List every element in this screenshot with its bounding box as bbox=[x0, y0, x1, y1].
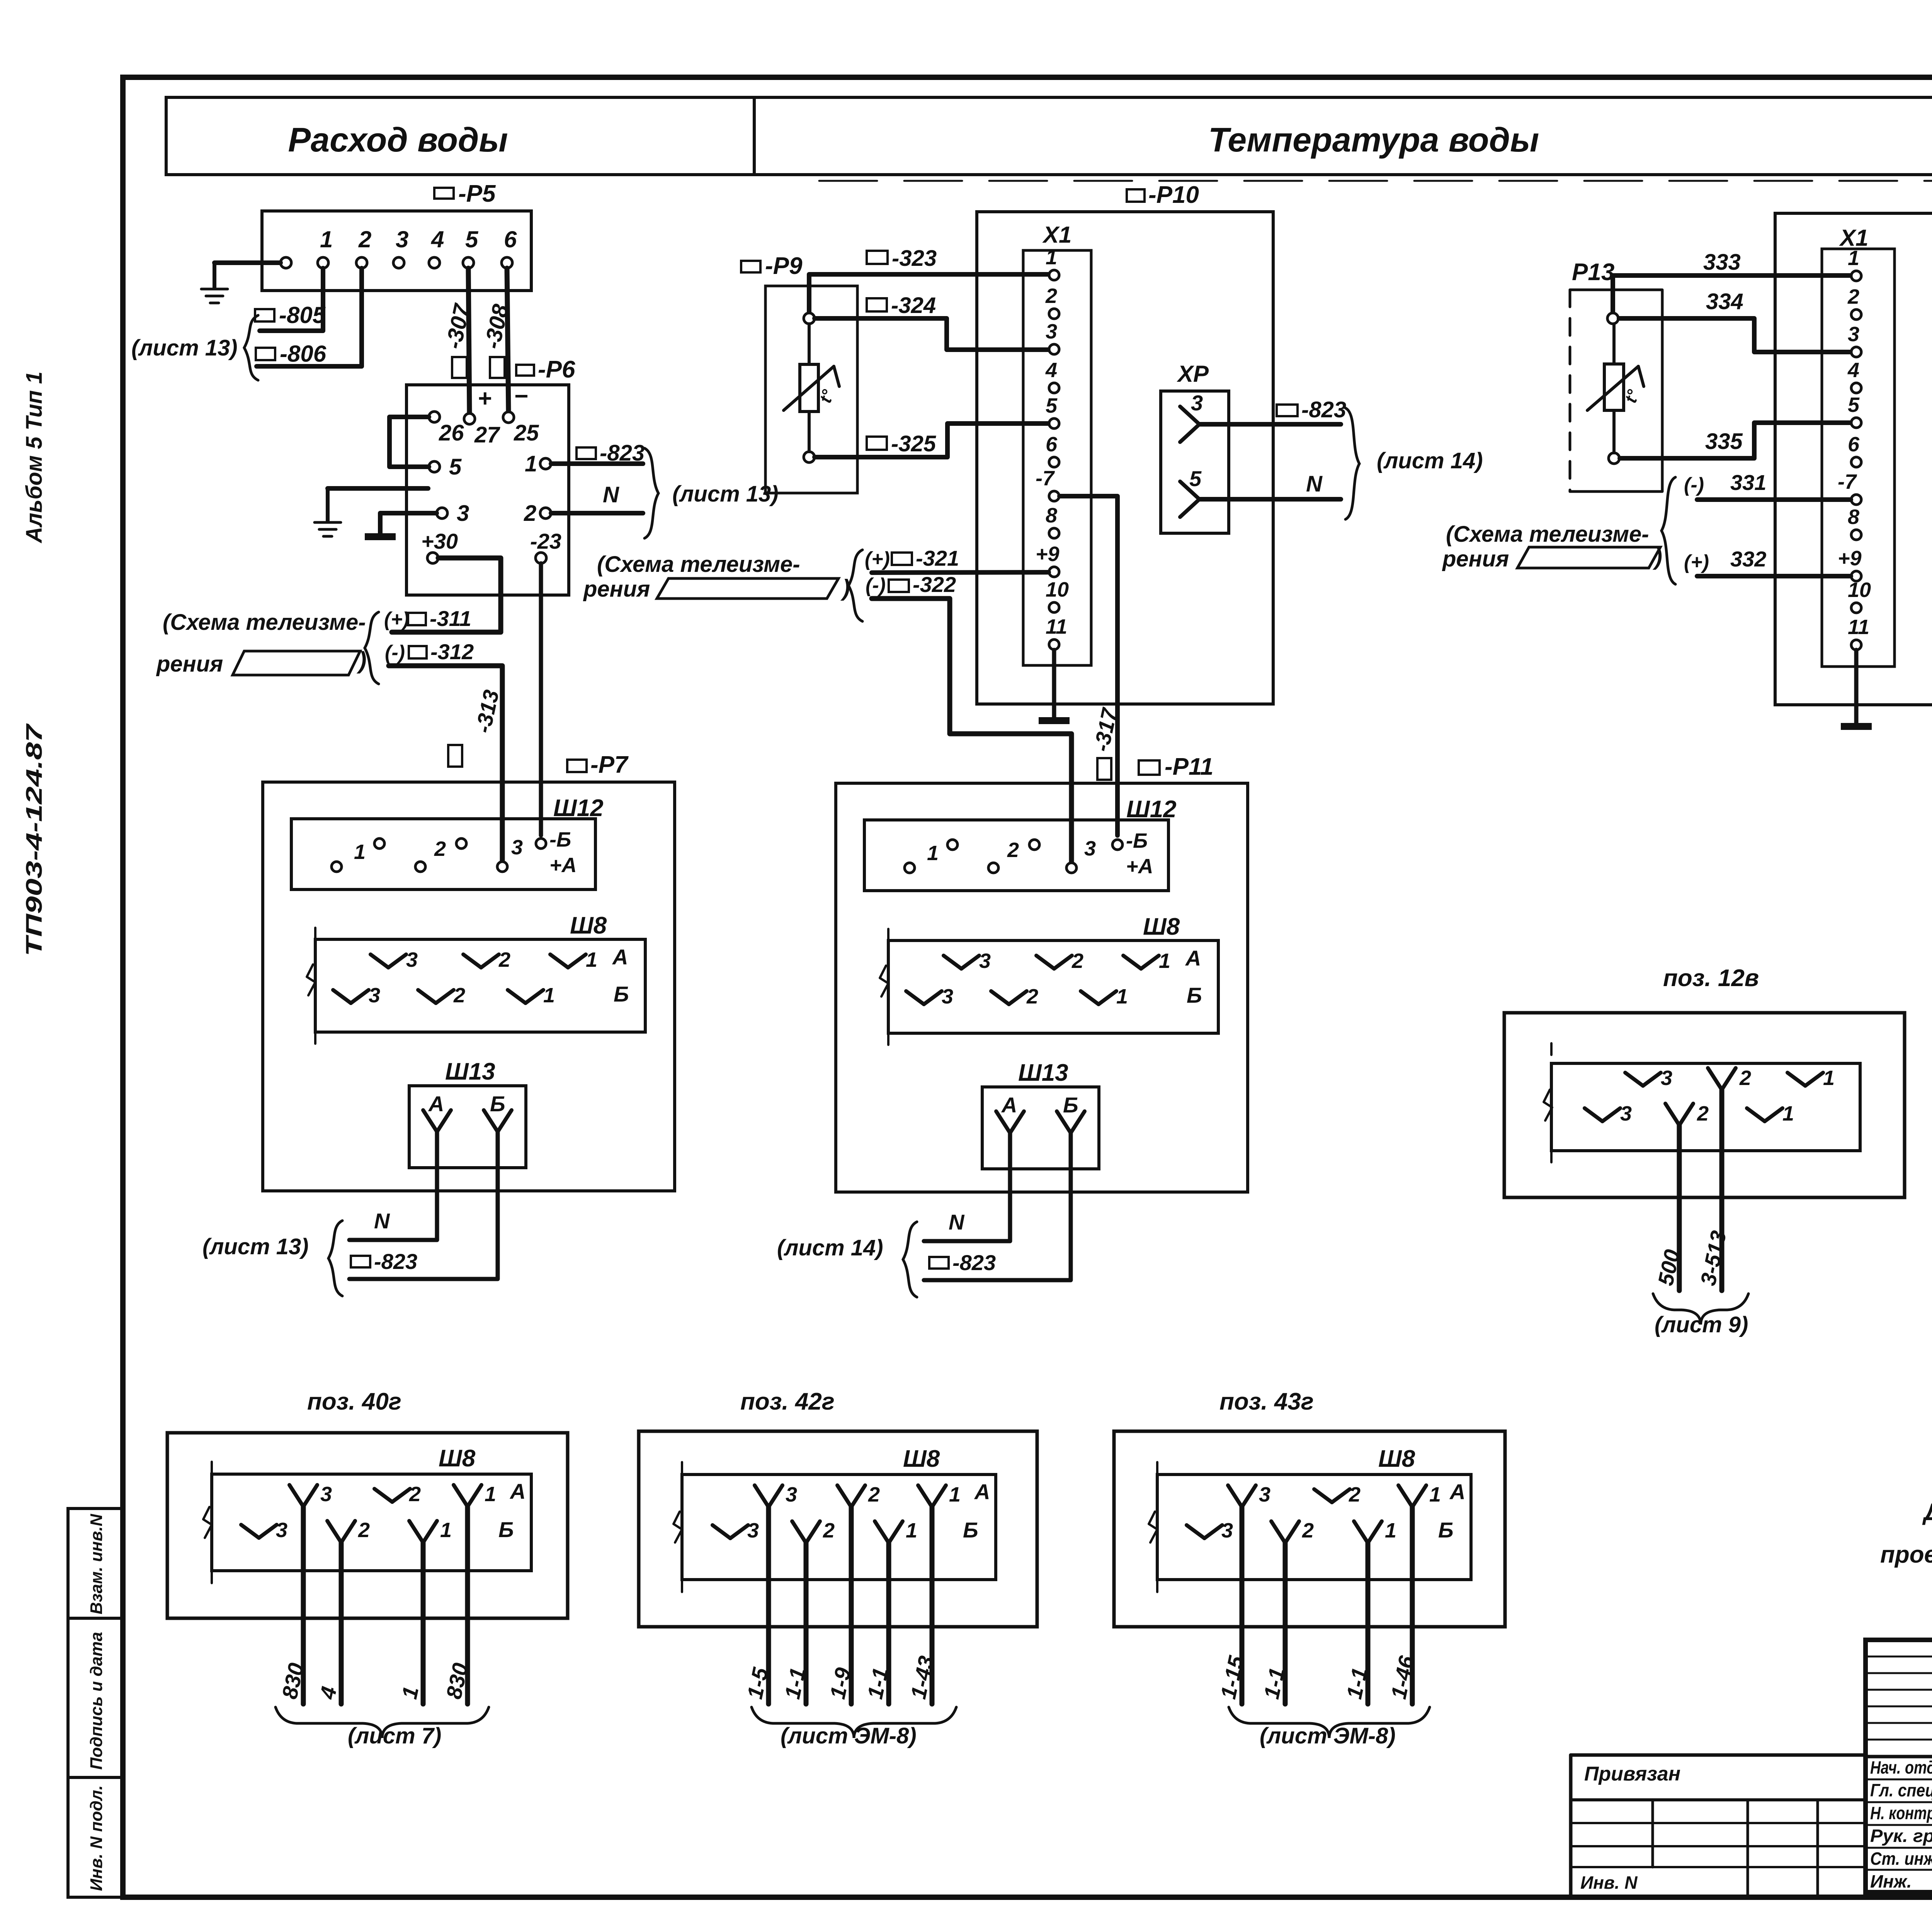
header divider bbox=[753, 97, 756, 175]
поз.43г row A check 2 bbox=[1314, 1489, 1332, 1502]
svg-text:2: 2 bbox=[358, 1519, 370, 1542]
svg-text:Альбом 5 Тип 1: Альбом 5 Тип 1 bbox=[22, 371, 47, 544]
X1 P14 pin 1 bbox=[1851, 271, 1861, 281]
X1 P10 pin 4 bbox=[1049, 383, 1059, 393]
indicator box поз.43г bbox=[1114, 1431, 1505, 1627]
wire 1-1 from поз.42г bbox=[804, 1543, 809, 1704]
Ш8 panel of поз.40г bbox=[212, 1474, 531, 1571]
svg-text:(Схема телеизме-: (Схема телеизме- bbox=[1446, 522, 1649, 547]
svg-text:3: 3 bbox=[320, 1483, 332, 1506]
brace for 805/806 bbox=[244, 315, 258, 380]
Ш8 P11 row A checks bbox=[944, 956, 961, 969]
svg-text:1: 1 bbox=[586, 948, 597, 971]
поз.12в row A check 3 bbox=[1625, 1073, 1643, 1086]
earth bar filled bbox=[365, 533, 396, 540]
label -P6 bbox=[516, 365, 534, 376]
terminal box P5 bbox=[262, 211, 531, 291]
X1 P14 pin 10 bbox=[1851, 603, 1861, 613]
Ш8 panel of поз.43г bbox=[1157, 1475, 1471, 1580]
P6 terminal 5 bbox=[429, 461, 440, 472]
wire 1-9 from поз.42г bbox=[849, 1507, 854, 1704]
svg-text:+А: +А bbox=[549, 854, 577, 877]
device box P7 bbox=[263, 782, 675, 1191]
svg-text:8: 8 bbox=[1046, 504, 1057, 527]
brace under поз.40г bbox=[276, 1707, 489, 1738]
Ш8 P7 left break line bbox=[314, 928, 316, 1044]
header box bbox=[166, 97, 1932, 175]
svg-text:Ш8: Ш8 bbox=[1143, 913, 1180, 940]
Ш8 P11 left break line bbox=[887, 929, 889, 1045]
Ш8 panel of поз.42г bbox=[682, 1475, 996, 1580]
X1 P10 pin 8 bbox=[1049, 528, 1059, 538]
Ш12 P11 pin circle 2 bbox=[947, 840, 957, 850]
svg-text:(Схема телеизме-: (Схема телеизме- bbox=[597, 552, 800, 577]
wire 1-43 from поз.42г bbox=[930, 1507, 935, 1704]
svg-text:1: 1 bbox=[1116, 985, 1128, 1008]
wire 334 bbox=[1619, 318, 1851, 352]
P6 terminal 25 bbox=[503, 412, 514, 423]
label -823 B bbox=[1277, 405, 1298, 416]
wire P6 pin3 to earth bbox=[380, 513, 437, 533]
wire 322 (-) to Ш12-3 (P11) bbox=[872, 599, 1071, 863]
title block upper-left grid bbox=[1866, 1656, 1932, 1658]
svg-text:1: 1 bbox=[485, 1483, 496, 1506]
поз.40г row A check 3 bbox=[289, 1485, 303, 1507]
svg-text:27: 27 bbox=[474, 422, 500, 447]
svg-text:1: 1 bbox=[354, 840, 366, 864]
wire 324 bbox=[815, 318, 1049, 350]
wire XP3 to -823 bbox=[1199, 422, 1341, 427]
svg-text:-806: -806 bbox=[280, 341, 327, 367]
wire P5 pin6 to P6 25 bbox=[507, 268, 509, 412]
X1 P10 pin 11 bbox=[1049, 639, 1059, 650]
label -823 of P7 bbox=[351, 1256, 370, 1267]
svg-text:поз. 42г: поз. 42г bbox=[740, 1388, 835, 1415]
left extension of title block bbox=[1571, 1753, 1866, 1757]
svg-text:Б: Б bbox=[963, 1518, 978, 1542]
margin box Взам.инв.N bbox=[68, 1509, 122, 1618]
svg-text:1: 1 bbox=[543, 984, 555, 1007]
X1 P10 pin 2 bbox=[1049, 309, 1059, 319]
wire 1-1 from поз.43г bbox=[1283, 1543, 1288, 1704]
P6 terminal 1 bbox=[540, 458, 551, 469]
X1 P10 pin 1 bbox=[1049, 270, 1059, 280]
label -P9 bbox=[741, 261, 760, 272]
svg-text:поз. 43г: поз. 43г bbox=[1219, 1388, 1314, 1415]
svg-text:2: 2 bbox=[868, 1483, 880, 1506]
svg-text:3: 3 bbox=[1661, 1066, 1672, 1090]
svg-text:ТП903-4-124.87: ТП903-4-124.87 bbox=[22, 723, 47, 956]
instrument box P14 bbox=[1775, 213, 1932, 705]
wire P5 pin2 to -806 bbox=[257, 268, 362, 366]
svg-text:-823: -823 bbox=[1301, 397, 1346, 422]
wire 1-15 from поз.43г bbox=[1240, 1507, 1245, 1704]
label -P5 bbox=[434, 188, 454, 199]
svg-text:-23: -23 bbox=[530, 529, 561, 553]
break line поз.40г bbox=[211, 1462, 213, 1583]
svg-text:Б: Б bbox=[498, 1517, 514, 1542]
svg-text:3: 3 bbox=[1259, 1483, 1270, 1506]
Ш12 P11 pin circle 3 bbox=[988, 863, 998, 873]
svg-text:поз. 12в: поз. 12в bbox=[1663, 965, 1759, 992]
поз.42г row Б check 3 bbox=[713, 1525, 730, 1538]
svg-text:Ш13: Ш13 bbox=[445, 1058, 495, 1085]
svg-text:А: А bbox=[509, 1479, 526, 1503]
svg-text:(+): (+) bbox=[865, 548, 890, 570]
wire Ш13-Б of P11 to -823 bbox=[924, 1133, 1071, 1280]
svg-text:Ш8: Ш8 bbox=[439, 1445, 476, 1472]
svg-text:3: 3 bbox=[369, 984, 380, 1007]
svg-text:N: N bbox=[1306, 471, 1323, 497]
svg-text:+: + bbox=[478, 385, 492, 412]
X1 P14 pin 7 bbox=[1851, 495, 1861, 505]
wire XP5 N bbox=[1199, 497, 1341, 502]
svg-text:4: 4 bbox=[1847, 359, 1859, 382]
svg-text:-325: -325 bbox=[891, 431, 936, 456]
svg-text:1: 1 bbox=[320, 226, 333, 252]
svg-text:3: 3 bbox=[457, 501, 469, 526]
svg-text:+9: +9 bbox=[1838, 547, 1862, 570]
Ш8 P11 row Б checks bbox=[906, 991, 924, 1004]
X1 P14 pin 11 bbox=[1851, 640, 1861, 650]
left extension grid bbox=[1571, 1822, 1866, 1824]
svg-text:-Р9: -Р9 bbox=[765, 253, 803, 279]
indicator box поз.12в bbox=[1504, 1013, 1905, 1197]
Ш12 P7 pin circle 1 bbox=[332, 862, 342, 872]
wire 332 (+) bbox=[1697, 574, 1851, 578]
wire 325 bbox=[815, 423, 1049, 457]
wire X1-11 to ground B bbox=[1052, 650, 1056, 717]
inner panel поз.12в bbox=[1551, 1063, 1860, 1151]
svg-text:3: 3 bbox=[406, 948, 418, 971]
поз.43г row Б check 1 bbox=[1354, 1521, 1368, 1543]
X1 P14 pin 4 bbox=[1851, 383, 1861, 393]
wire 1-1 from поз.42г bbox=[886, 1543, 891, 1704]
svg-text:(-): (-) bbox=[1684, 474, 1704, 496]
svg-text:-7: -7 bbox=[1036, 467, 1055, 490]
svg-text:5: 5 bbox=[449, 454, 462, 480]
svg-text:331: 331 bbox=[1730, 470, 1766, 495]
svg-text:-311: -311 bbox=[430, 606, 471, 631]
RTD resistor body P9 bbox=[800, 364, 818, 412]
svg-text:-324: -324 bbox=[891, 293, 936, 318]
svg-text:А: А bbox=[428, 1092, 444, 1116]
P6 terminal -23 bbox=[536, 553, 546, 563]
поз.42г row A check 3 bbox=[755, 1485, 769, 1507]
P6 terminal 3 bbox=[437, 508, 447, 519]
svg-text:+30: +30 bbox=[421, 529, 458, 553]
svg-text:333: 333 bbox=[1703, 250, 1741, 275]
title block outline bbox=[1866, 1640, 1932, 1892]
svg-text:N: N bbox=[603, 482, 619, 507]
svg-text:1: 1 bbox=[1823, 1066, 1835, 1090]
P6 terminal 26 bbox=[429, 412, 440, 422]
svg-text:А: А bbox=[612, 945, 628, 969]
svg-text:(лист 13): (лист 13) bbox=[131, 335, 238, 361]
svg-text:2: 2 bbox=[1349, 1483, 1361, 1506]
X1 P14 pin 8 bbox=[1851, 530, 1861, 540]
brace of P11 bbox=[903, 1222, 917, 1297]
indicator box поз.40г bbox=[167, 1433, 568, 1618]
Ш12 P11 pin circle 4 bbox=[1029, 840, 1039, 850]
wire P5 pin1 to -805 bbox=[260, 268, 323, 331]
svg-text:1: 1 bbox=[1848, 247, 1859, 270]
svg-text:2: 2 bbox=[409, 1483, 421, 1506]
svg-text:-823: -823 bbox=[600, 440, 645, 466]
svg-text:-312: -312 bbox=[430, 639, 474, 664]
sensor box P9 bbox=[765, 286, 857, 493]
indicator box поз.42г bbox=[639, 1431, 1037, 1627]
svg-text:6: 6 bbox=[504, 226, 517, 252]
device box P11 bbox=[836, 783, 1248, 1192]
wire 333 bbox=[1613, 276, 1851, 318]
brace of P7 bbox=[328, 1221, 342, 1296]
svg-text:3: 3 bbox=[1221, 1519, 1233, 1542]
поз.12в row Б check 1 bbox=[1747, 1108, 1765, 1121]
RTD resistor body P13 bbox=[1604, 364, 1624, 410]
svg-text:(лист 7): (лист 7) bbox=[348, 1723, 441, 1748]
header underline dashes bbox=[819, 180, 1932, 182]
svg-text:-805: -805 bbox=[279, 302, 326, 328]
svg-text:Инв. N подл.: Инв. N подл. bbox=[87, 1785, 106, 1891]
поз.40г row Б check 1 bbox=[409, 1521, 423, 1543]
svg-text:Подпись и дата: Подпись и дата bbox=[87, 1632, 106, 1770]
device box P6 bbox=[406, 385, 569, 595]
brace schema B bbox=[849, 550, 862, 621]
svg-text:8: 8 bbox=[1848, 505, 1859, 529]
svg-text:(лист 13): (лист 13) bbox=[672, 481, 779, 507]
svg-text:Инв. N: Инв. N bbox=[1580, 1872, 1638, 1893]
X1 P14 pin 3 bbox=[1851, 347, 1861, 357]
wire P5 pin5 to P6 27 bbox=[468, 268, 469, 413]
svg-text:2: 2 bbox=[1007, 838, 1019, 862]
svg-text:3: 3 bbox=[1084, 837, 1096, 860]
svg-text:1: 1 bbox=[440, 1519, 452, 1542]
svg-text:1: 1 bbox=[1429, 1483, 1441, 1506]
svg-text:10: 10 bbox=[1046, 578, 1069, 601]
svg-text:1: 1 bbox=[1385, 1519, 1396, 1542]
svg-text:(лист 13): (лист 13) bbox=[202, 1234, 309, 1259]
X1 P10 pin 3 bbox=[1049, 344, 1059, 354]
svg-text:3: 3 bbox=[276, 1519, 287, 1542]
svg-text:Б: Б bbox=[1438, 1518, 1454, 1542]
svg-text:(лист 14): (лист 14) bbox=[777, 1235, 883, 1260]
поз.42г row A check 2 bbox=[837, 1485, 851, 1507]
svg-text:(лист ЭМ-8): (лист ЭМ-8) bbox=[1260, 1723, 1396, 1748]
svg-text:Температура воды: Температура воды bbox=[1208, 121, 1539, 159]
svg-text:3: 3 bbox=[942, 985, 953, 1008]
svg-text:3: 3 bbox=[786, 1483, 797, 1506]
svg-text:2: 2 bbox=[524, 501, 536, 526]
wire Ш13-А of P11 to N bbox=[924, 1133, 1010, 1241]
svg-text:5: 5 bbox=[1046, 394, 1058, 417]
svg-text:Ст. инж.: Ст. инж. bbox=[1870, 1849, 1932, 1869]
svg-text:Б: Б bbox=[1187, 983, 1202, 1007]
parallelogram A bbox=[233, 651, 360, 675]
svg-text:А: А bbox=[1185, 946, 1201, 970]
ground bar B bbox=[1039, 717, 1070, 724]
поз.42г row A check 1 bbox=[918, 1485, 932, 1507]
svg-text:-7: -7 bbox=[1838, 470, 1857, 493]
X1 P10 pin 7 bbox=[1049, 491, 1059, 501]
svg-text:5: 5 bbox=[1189, 466, 1202, 491]
svg-text:1: 1 bbox=[927, 842, 939, 865]
svg-text:3: 3 bbox=[747, 1519, 759, 1542]
Ш8 P7 row Б checks bbox=[333, 990, 351, 1003]
svg-text:Н. контр.: Н. контр. bbox=[1870, 1803, 1932, 1823]
svg-text:26: 26 bbox=[439, 420, 464, 446]
parallelogram B bbox=[657, 578, 838, 599]
svg-text:А: А bbox=[1001, 1093, 1017, 1117]
wire RTD stem P9 bbox=[808, 324, 811, 364]
svg-text:проекта: проекта bbox=[1880, 1541, 1932, 1568]
svg-text:(-): (-) bbox=[385, 641, 405, 664]
wire 323 bbox=[809, 274, 1049, 318]
label -806 bbox=[256, 348, 275, 360]
svg-text:1: 1 bbox=[1046, 246, 1057, 269]
svg-text:N: N bbox=[374, 1209, 390, 1233]
поз.43г row Б check 3 bbox=[1187, 1525, 1204, 1538]
Ш12 P7 pin circle 5 bbox=[497, 862, 507, 872]
ground bar C bbox=[1841, 723, 1872, 730]
P6 terminal +30 bbox=[427, 553, 438, 563]
svg-text:-Р11: -Р11 bbox=[1165, 753, 1213, 780]
instrument box P7 bbox=[567, 760, 587, 772]
svg-text:5: 5 bbox=[465, 226, 479, 252]
ground wire into P6 left bbox=[328, 486, 428, 491]
svg-text:11: 11 bbox=[1046, 615, 1067, 638]
svg-text:4: 4 bbox=[431, 226, 444, 252]
wire 1-46 from поз.43г bbox=[1410, 1507, 1415, 1704]
svg-text:XP: XP bbox=[1177, 361, 1209, 387]
svg-text:−: − bbox=[514, 383, 528, 410]
Ш12 P7 pin circle 4 bbox=[456, 838, 466, 849]
svg-text:3: 3 bbox=[1191, 391, 1203, 415]
X1 P10 pin 5 bbox=[1049, 418, 1059, 429]
svg-text:N: N bbox=[949, 1210, 965, 1234]
svg-text:-Р5: -Р5 bbox=[458, 180, 496, 207]
label -324 bbox=[867, 298, 887, 311]
svg-text:Б: Б bbox=[1063, 1093, 1078, 1117]
wire 1-1 from поз.43г bbox=[1366, 1543, 1371, 1704]
svg-text:1: 1 bbox=[1782, 1102, 1794, 1125]
поз.12в row A check 1 bbox=[1787, 1073, 1805, 1086]
svg-text:Ш8: Ш8 bbox=[903, 1446, 940, 1472]
wire 331 (-) bbox=[1697, 497, 1851, 502]
svg-text:1: 1 bbox=[949, 1483, 961, 1506]
label -325 bbox=[867, 437, 887, 450]
svg-text:+А: +А bbox=[1126, 855, 1153, 878]
svg-text:-Б: -Б bbox=[549, 828, 571, 851]
wire Ш13-А of P7 to N bbox=[349, 1132, 437, 1240]
svg-text:Нач. отд.: Нач. отд. bbox=[1870, 1757, 1932, 1777]
svg-text:-823: -823 bbox=[374, 1249, 417, 1274]
поз.42г row Б check 2 bbox=[792, 1521, 806, 1543]
svg-text:25: 25 bbox=[514, 420, 539, 446]
brace (лист 14) right of XP B bbox=[1345, 408, 1359, 519]
svg-text:3: 3 bbox=[1848, 323, 1859, 346]
svg-text:-323: -323 bbox=[892, 246, 937, 271]
svg-text:1: 1 bbox=[1159, 949, 1170, 973]
brace (лист 13) right bbox=[645, 448, 658, 538]
X1 P14 pin 6 bbox=[1851, 457, 1861, 467]
svg-text:-321: -321 bbox=[916, 546, 959, 570]
svg-text:6: 6 bbox=[1848, 433, 1860, 456]
wire 1 from поз.40г bbox=[421, 1543, 426, 1704]
svg-text:2: 2 bbox=[434, 837, 446, 861]
label -805 bbox=[255, 309, 274, 321]
instrument box P10 bbox=[977, 212, 1273, 704]
svg-text:рения: рения bbox=[1442, 546, 1509, 571]
wire 1-5 from поз.42г bbox=[766, 1507, 771, 1704]
svg-text:3: 3 bbox=[979, 949, 991, 973]
svg-text:2: 2 bbox=[1847, 285, 1859, 308]
X1 P10 pin 6 bbox=[1049, 457, 1059, 467]
label -823 of P11 bbox=[929, 1257, 949, 1269]
wire 4 from поз.40г bbox=[339, 1543, 344, 1704]
svg-text:3: 3 bbox=[396, 226, 408, 252]
svg-text:(+): (+) bbox=[384, 608, 409, 631]
label -823 group A bbox=[577, 447, 596, 459]
svg-text:4: 4 bbox=[1045, 359, 1057, 382]
поз.12в row Б check 3 bbox=[1585, 1108, 1602, 1121]
margin box Подпись и дата bbox=[68, 1618, 122, 1777]
svg-text:Ш8: Ш8 bbox=[570, 912, 607, 939]
margin box Инв.N подл. bbox=[68, 1777, 122, 1897]
svg-text:332: 332 bbox=[1730, 547, 1766, 571]
поз.40г row Б check 2 bbox=[327, 1521, 341, 1543]
X1 P10 pin 10 bbox=[1049, 602, 1059, 612]
svg-text:рения: рения bbox=[156, 651, 223, 677]
wire 3-513 from поз.12в bbox=[1719, 1090, 1725, 1291]
svg-text:5: 5 bbox=[1848, 393, 1860, 417]
P9 bottom terminal bbox=[804, 452, 815, 463]
Ш12 P11 pin circle 5 bbox=[1066, 863, 1077, 873]
P13 bottom terminal bbox=[1609, 453, 1619, 464]
svg-text:(+): (+) bbox=[1684, 551, 1709, 573]
svg-text:Гл. спец.: Гл. спец. bbox=[1870, 1780, 1932, 1800]
svg-text:11: 11 bbox=[1848, 616, 1869, 639]
wire +30 to -311 bbox=[392, 558, 501, 632]
svg-text:Ш13: Ш13 bbox=[1018, 1060, 1068, 1086]
wire X1 P14 pin11 to ground bbox=[1854, 650, 1859, 723]
svg-text:2: 2 bbox=[1697, 1102, 1709, 1125]
svg-text:А: А bbox=[1449, 1480, 1465, 1504]
P6 terminal 2 bbox=[540, 508, 551, 519]
wire 500 from поз.12в bbox=[1677, 1125, 1682, 1291]
поз.12в row Б check 2 bbox=[1665, 1104, 1679, 1125]
wire 830 from поз.40г bbox=[465, 1507, 470, 1704]
wire 335 bbox=[1620, 423, 1851, 458]
svg-text:Р13: Р13 bbox=[1572, 259, 1614, 286]
parallelogram C bbox=[1517, 547, 1660, 568]
svg-text:335: 335 bbox=[1705, 429, 1743, 454]
svg-text:10: 10 bbox=[1848, 578, 1871, 602]
brace under поз.42г bbox=[752, 1707, 956, 1738]
X1 P14 pin 5 bbox=[1851, 418, 1861, 428]
RTD stem P13 bbox=[1612, 324, 1616, 364]
Ш12 P11 pin circle 6 bbox=[1112, 840, 1122, 850]
svg-text:2: 2 bbox=[1045, 284, 1057, 308]
X1 P10 pin 9 bbox=[1049, 567, 1059, 577]
wire 321 (+) bbox=[872, 572, 1049, 573]
Ш12 P7 pin circle 2 bbox=[374, 838, 384, 849]
label -323 bbox=[867, 251, 888, 264]
поз.12в row A check 2 bbox=[1708, 1068, 1722, 1090]
svg-text:Рук. гр.: Рук. гр. bbox=[1870, 1826, 1932, 1846]
svg-text:-322: -322 bbox=[913, 572, 956, 597]
label -P10 bbox=[1127, 189, 1145, 202]
